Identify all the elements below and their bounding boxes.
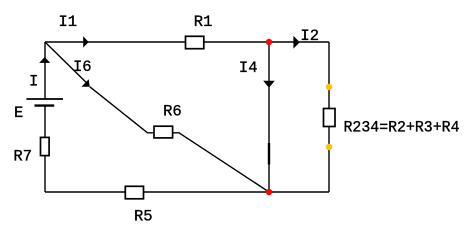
svg-text:I1: I1 xyxy=(59,13,78,31)
arrow I2 (current right toward corner) xyxy=(293,36,299,49)
svg-text:I4: I4 xyxy=(239,59,258,77)
wire bottom xyxy=(45,191,329,193)
node A (red junction top) xyxy=(266,39,272,45)
wire diagonal middle (I6 arrow to R6) xyxy=(90,87,154,133)
svg-text:R7: R7 xyxy=(13,148,32,166)
wire middle thick segment xyxy=(268,143,270,165)
node C (yellow terminal upper) xyxy=(326,84,332,90)
svg-text:R1: R1 xyxy=(194,13,213,31)
svg-text:R6: R6 xyxy=(163,103,182,121)
node B (red junction bottom) xyxy=(266,189,272,195)
resistor R6 xyxy=(154,126,173,138)
resistor R5 xyxy=(125,186,143,199)
resistor R7 xyxy=(41,137,50,155)
wire right xyxy=(328,42,330,192)
wire top (node A to top-right corner) xyxy=(45,41,329,43)
resistor R234 xyxy=(324,109,336,127)
resistor R1 xyxy=(186,36,204,48)
wire diagonal upper (junction to I6 arrow) xyxy=(45,42,86,82)
arrow I4 (current down on middle wire) xyxy=(263,81,275,88)
svg-text:I6: I6 xyxy=(73,58,92,76)
arrow I (current up on left wire) xyxy=(39,57,50,63)
wire left (top-left corner down to battery) xyxy=(44,42,46,99)
arrow I6 (current down-right on diagonal) xyxy=(81,79,89,86)
wire left (battery down to bottom-left corner) xyxy=(44,106,46,193)
node D (yellow terminal lower) xyxy=(326,144,332,150)
svg-text:I: I xyxy=(29,72,38,90)
arrow I1 (current right on top wire) xyxy=(83,36,88,47)
svg-text:R234=R2+R3+R4: R234=R2+R3+R4 xyxy=(344,119,460,137)
svg-text:E: E xyxy=(14,104,23,122)
svg-text:R5: R5 xyxy=(134,208,153,226)
wire middle branch (node A to node B) xyxy=(268,42,270,192)
wire diagonal lower (R6 to node B) xyxy=(173,133,269,192)
svg-text:I2: I2 xyxy=(300,27,319,45)
battery E xyxy=(26,99,63,106)
